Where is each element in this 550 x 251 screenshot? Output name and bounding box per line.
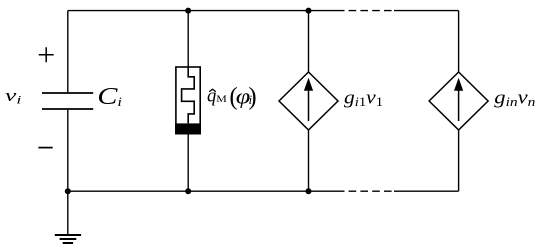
label C_i (97, 83, 122, 110)
label qM(phi_i) (207, 84, 257, 111)
wire right branch lower (458, 130, 460, 191)
wire source1 branch upper (308, 11, 310, 73)
node top-source1 (306, 8, 312, 14)
svg-text:M: M (216, 94, 227, 105)
wire right branch upper (458, 11, 460, 73)
label v_i (5, 86, 21, 107)
svg-text:): ) (248, 84, 256, 111)
label g_i1 v_1 (344, 88, 383, 110)
svg-text:vi: vi (5, 86, 21, 107)
node bottom-left (65, 188, 71, 194)
wire top rail solid right (394, 10, 459, 12)
wire top rail solid left (68, 10, 345, 12)
label minus (38, 147, 52, 149)
wire top rail dashed (349, 10, 392, 12)
wire memristor branch upper (187, 11, 189, 67)
label plus (39, 47, 54, 62)
capacitor C_i (42, 93, 93, 109)
node top-memristor (185, 8, 191, 14)
svg-text:Ci: Ci (97, 83, 122, 110)
svg-text:ginvn: ginvn (494, 86, 535, 110)
ground (55, 235, 81, 243)
wire bottom rail dashed (349, 190, 392, 192)
wire left branch lower (67, 109, 69, 191)
svg-text:gi1v1: gi1v1 (344, 88, 383, 110)
node bottom-source1 (306, 188, 312, 194)
wire bottom rail solid right (394, 190, 459, 192)
wire bottom rail solid left (68, 190, 345, 192)
controlled current source G1 (diamond) (279, 72, 338, 130)
memristor M (box with meander and filled bar) (175, 67, 201, 135)
wire memristor branch lower (187, 135, 189, 192)
label g_in v_n (494, 86, 535, 110)
wire left branch upper (67, 11, 69, 93)
wire ground stem (67, 191, 69, 234)
node bottom-memristor (185, 188, 191, 194)
wire source1 branch lower (308, 130, 310, 191)
controlled current source Gn (diamond) (429, 72, 488, 130)
svg-text:q: q (207, 86, 216, 106)
